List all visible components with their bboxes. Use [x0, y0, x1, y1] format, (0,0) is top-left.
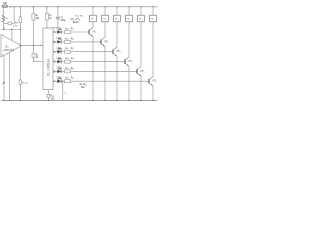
- LED6 arrows: [59, 78, 62, 79]
- wire: [4, 22, 8, 24]
- svg-text:R₁₂: R₁₂: [71, 77, 75, 80]
- svg-text:C₂: C₂: [65, 93, 68, 95]
- LED5 arrows: [59, 68, 62, 69]
- LED2 arrows: [59, 39, 62, 40]
- svg-text:R₇: R₇: [71, 28, 74, 31]
- svg-text:R₂: R₂: [3, 28, 6, 30]
- node: [33, 45, 34, 46]
- wire: [11, 30, 13, 41]
- wire emitter VT2: [104, 47, 106, 101]
- wire: [47, 98, 49, 101]
- lamp EL6: [150, 15, 157, 22]
- node J1: [10, 6, 11, 7]
- svg-text:LED₃: LED₃: [57, 47, 63, 50]
- svg-text:C₁: C₁: [61, 17, 64, 19]
- wire: [3, 7, 5, 15]
- node: [14, 6, 15, 7]
- wire: [71, 70, 137, 72]
- wire: [71, 41, 101, 43]
- svg-text:R₆ 1k: R₆ 1k: [22, 83, 28, 85]
- lamp EL4: [126, 15, 133, 22]
- wire: [61, 51, 64, 53]
- wire: [1, 29, 20, 31]
- wire top supply rail: [2, 6, 158, 8]
- wire: [140, 7, 142, 15]
- svg-text:EL₂: EL₂: [103, 19, 107, 21]
- wire: [3, 55, 5, 100]
- transistor VT2: [100, 40, 102, 45]
- wire emitter VT5: [140, 76, 142, 100]
- svg-text:VT₅: VT₅: [140, 69, 144, 73]
- battery GB: [2, 5, 8, 8]
- transistor VT1: [88, 30, 90, 35]
- svg-text:R₃: R₃: [36, 15, 39, 17]
- resistor R6: [19, 80, 21, 85]
- svg-text:VT₂: VT₂: [104, 39, 108, 43]
- node: [116, 6, 117, 7]
- node: [20, 45, 21, 46]
- resistor R8: [65, 40, 71, 43]
- wire: [19, 85, 21, 101]
- wire: [53, 61, 57, 63]
- wire: [61, 80, 64, 82]
- wire: [53, 80, 57, 82]
- svg-text:EL₄: EL₄: [127, 19, 131, 21]
- node: [128, 100, 129, 101]
- wire: [53, 70, 57, 72]
- svg-text:VT₄: VT₄: [128, 59, 132, 63]
- node: [9, 100, 10, 101]
- resistor R5: [32, 53, 35, 57]
- node: [20, 6, 21, 7]
- svg-text:LED₂: LED₂: [57, 37, 63, 40]
- node: [57, 6, 58, 7]
- transistor VT3: [112, 49, 114, 54]
- node: [46, 6, 47, 7]
- lamp EL1: [90, 15, 97, 22]
- node: [152, 6, 153, 7]
- node: [104, 100, 105, 101]
- resistor R9: [65, 50, 71, 53]
- node: [3, 29, 4, 30]
- LED LED4: [57, 60, 61, 64]
- wire collector VT2: [104, 22, 106, 38]
- svg-text:IC₂ LM3914: IC₂ LM3914: [47, 59, 51, 76]
- wire emitter VT3: [116, 56, 118, 100]
- svg-text:R₉: R₉: [71, 47, 74, 50]
- svg-text:LED₆: LED₆: [57, 77, 63, 80]
- wire emitter VT6: [152, 86, 154, 101]
- svg-text:R₄: R₄: [49, 15, 52, 17]
- svg-text:GB: GB: [3, 1, 7, 5]
- svg-text:9014: 9014: [73, 21, 79, 24]
- wire: [9, 53, 11, 101]
- wire: [53, 41, 57, 43]
- svg-text:LED₅: LED₅: [57, 67, 63, 70]
- svg-text:100μ: 100μ: [61, 20, 67, 22]
- wire: [19, 7, 21, 17]
- wire: [12, 22, 15, 24]
- wire collector VT3: [116, 22, 118, 47]
- wire: [46, 20, 48, 28]
- transistor VT6: [148, 79, 150, 84]
- wire: [46, 7, 48, 14]
- node: [11, 29, 12, 30]
- node: [33, 6, 34, 7]
- wire: [32, 45, 34, 53]
- node: [62, 81, 63, 82]
- LED LED6: [57, 79, 61, 83]
- capacitor C1: [56, 16, 60, 18]
- LED4 arrows: [59, 58, 62, 59]
- resistor R10: [65, 60, 71, 63]
- wire emitter VT1: [92, 37, 94, 101]
- wire: [104, 7, 106, 15]
- wire: [32, 20, 34, 45]
- svg-text:μPC1713: μPC1713: [3, 49, 14, 52]
- resistor R1 zigzag: [2, 15, 5, 22]
- node: [128, 6, 129, 7]
- lamp EL5: [138, 15, 145, 22]
- LED LED1: [57, 30, 61, 34]
- wire: [71, 80, 149, 82]
- svg-text:LED₁: LED₁: [57, 27, 63, 30]
- svg-text:R₈: R₈: [71, 37, 74, 40]
- wire: [116, 7, 118, 15]
- lamp EL3: [114, 15, 121, 22]
- node: [140, 100, 141, 101]
- fuse box: [8, 22, 12, 25]
- svg-text:VT₁: VT₁: [92, 29, 96, 33]
- node: [116, 100, 117, 101]
- wire: [71, 31, 89, 33]
- node: [140, 6, 141, 7]
- svg-text:EL₅: EL₅: [139, 19, 143, 21]
- svg-text:VT₃: VT₃: [116, 49, 120, 53]
- wire: [92, 7, 94, 15]
- wire: [47, 90, 49, 95]
- svg-text:R₁₁: R₁₁: [71, 67, 75, 70]
- resistor R4: [45, 13, 48, 20]
- svg-text:R₁: R₁: [6, 18, 9, 20]
- wire: [61, 61, 64, 63]
- lamp EL2: [102, 15, 109, 22]
- wire: [71, 51, 113, 53]
- wire: [33, 61, 43, 63]
- wire: [61, 31, 64, 33]
- transistor VT5: [136, 69, 138, 74]
- wire: [128, 7, 130, 15]
- node: [3, 100, 4, 101]
- LED3 arrows: [59, 48, 62, 49]
- LED LED3: [57, 50, 61, 54]
- probe electrode: [2, 82, 5, 84]
- transistor VT4: [124, 59, 126, 64]
- wire: [3, 22, 5, 29]
- wire: [61, 41, 64, 43]
- wire: [57, 19, 59, 28]
- wire: [53, 31, 57, 33]
- node: [48, 100, 49, 101]
- wire emitter VT4: [128, 66, 130, 100]
- node: [92, 100, 93, 101]
- wire bottom ground rail: [2, 99, 158, 101]
- resistor R3: [32, 13, 35, 20]
- resistor R13: [47, 94, 50, 97]
- potentiometer RP1: [19, 17, 21, 23]
- svg-text:EL₁: EL₁: [91, 19, 95, 21]
- resistor R12: [65, 80, 71, 83]
- LED1 arrows: [59, 29, 62, 30]
- svg-text:LED₄: LED₄: [57, 57, 63, 60]
- node: [152, 100, 153, 101]
- node: [20, 29, 21, 30]
- svg-text:RP₁: RP₁: [15, 22, 19, 24]
- IC U2 LM3914: [43, 28, 53, 90]
- LED LED2: [57, 40, 61, 44]
- svg-text:VT₆: VT₆: [152, 79, 156, 83]
- node: [92, 6, 93, 7]
- wire collector VT4: [128, 22, 130, 57]
- capacitor C2 wire: [62, 81, 64, 100]
- wire: [152, 7, 154, 15]
- LED LED5: [57, 70, 61, 74]
- wire collector VT5: [140, 22, 142, 67]
- wire: [61, 70, 64, 72]
- wire: [32, 57, 34, 61]
- svg-text:R₁₀: R₁₀: [71, 57, 75, 60]
- wire: [53, 27, 58, 29]
- wire: [19, 23, 21, 80]
- svg-text:100: 100: [50, 97, 55, 100]
- wire collector VT6: [152, 22, 154, 77]
- wire: [57, 7, 59, 17]
- node: [40, 45, 41, 46]
- wire: [53, 51, 57, 53]
- wire: [13, 7, 15, 24]
- wire collector VT1: [92, 22, 94, 28]
- wire: [71, 61, 125, 63]
- svg-text:EL₃: EL₃: [115, 19, 119, 21]
- wire op-amp output: [20, 44, 43, 46]
- node: [104, 6, 105, 7]
- resistor R7: [65, 31, 71, 34]
- node: [20, 100, 21, 101]
- svg-text:EL₆: EL₆: [151, 19, 155, 21]
- resistor R11: [65, 70, 71, 73]
- op-amp IC1: [1, 35, 21, 58]
- svg-text:R₇~R₁₂: R₇~R₁₂: [80, 83, 87, 86]
- wire: [32, 7, 34, 14]
